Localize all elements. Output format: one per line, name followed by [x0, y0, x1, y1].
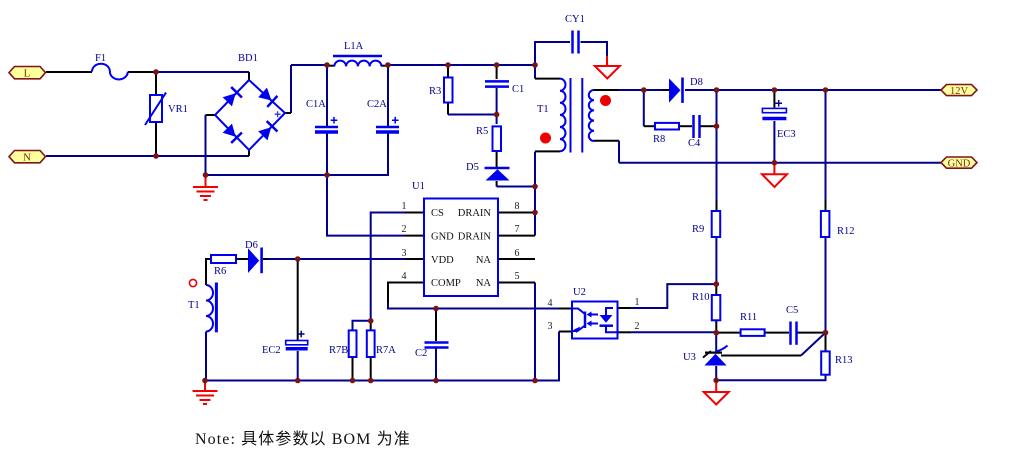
svg-text:Note: 具体参数以 BOM 为准: Note: 具体参数以 BOM 为准 [195, 430, 411, 448]
svg-text:EC3: EC3 [777, 129, 796, 140]
svg-text:EC2: EC2 [262, 345, 281, 356]
svg-text:C5: C5 [786, 305, 798, 316]
svg-text:C4: C4 [688, 138, 701, 149]
svg-text:T1: T1 [537, 104, 549, 115]
svg-text:R9: R9 [692, 224, 704, 235]
svg-text:U2: U2 [573, 287, 586, 298]
svg-text:NA: NA [476, 278, 492, 289]
svg-text:COMP: COMP [431, 278, 461, 289]
svg-text:L: L [24, 68, 31, 80]
svg-text:8: 8 [515, 201, 520, 212]
svg-text:R3: R3 [429, 86, 441, 97]
svg-text:6: 6 [515, 248, 520, 259]
svg-text:DRAIN: DRAIN [458, 208, 492, 219]
svg-text:N: N [23, 152, 31, 164]
svg-text:R8: R8 [653, 134, 665, 145]
svg-text:3: 3 [548, 321, 553, 332]
svg-text:R7A: R7A [376, 345, 396, 356]
svg-text:CY1: CY1 [565, 14, 585, 25]
svg-text:12V: 12V [950, 86, 969, 97]
svg-text:D5: D5 [466, 162, 479, 173]
svg-text:D6: D6 [245, 240, 258, 251]
svg-text:NA: NA [476, 255, 492, 266]
svg-text:GND: GND [948, 158, 971, 169]
svg-text:U3: U3 [683, 352, 696, 363]
svg-text:1: 1 [635, 297, 640, 308]
svg-text:VR1: VR1 [168, 104, 188, 115]
svg-text:L1A: L1A [344, 41, 364, 52]
svg-text:7: 7 [515, 224, 520, 235]
svg-text:R13: R13 [835, 355, 853, 366]
svg-text:R6: R6 [214, 266, 226, 277]
svg-text:5: 5 [515, 271, 520, 282]
svg-text:R12: R12 [837, 226, 855, 237]
svg-text:CS: CS [431, 208, 444, 219]
svg-text:U1: U1 [412, 181, 425, 192]
svg-text:C2: C2 [415, 348, 427, 359]
svg-text:4: 4 [402, 271, 407, 282]
svg-text:GND: GND [431, 232, 454, 243]
svg-text:R10: R10 [692, 292, 710, 303]
svg-text:C1: C1 [512, 84, 524, 95]
svg-text:4: 4 [548, 298, 553, 309]
svg-text:VDD: VDD [431, 255, 454, 266]
svg-text:R11: R11 [740, 312, 757, 323]
svg-text:DRAIN: DRAIN [458, 232, 492, 243]
svg-text:C1A: C1A [306, 99, 326, 110]
svg-text:1: 1 [402, 201, 407, 212]
svg-text:R7B: R7B [329, 345, 348, 356]
svg-text:3: 3 [402, 248, 407, 259]
svg-text:D8: D8 [690, 77, 703, 88]
svg-text:2: 2 [635, 321, 640, 332]
svg-text:C2A: C2A [367, 99, 387, 110]
svg-text:F1: F1 [95, 53, 106, 64]
svg-text:2: 2 [402, 224, 407, 235]
svg-text:T1: T1 [188, 300, 200, 311]
svg-text:BD1: BD1 [238, 53, 258, 64]
svg-text:R5: R5 [476, 126, 488, 137]
